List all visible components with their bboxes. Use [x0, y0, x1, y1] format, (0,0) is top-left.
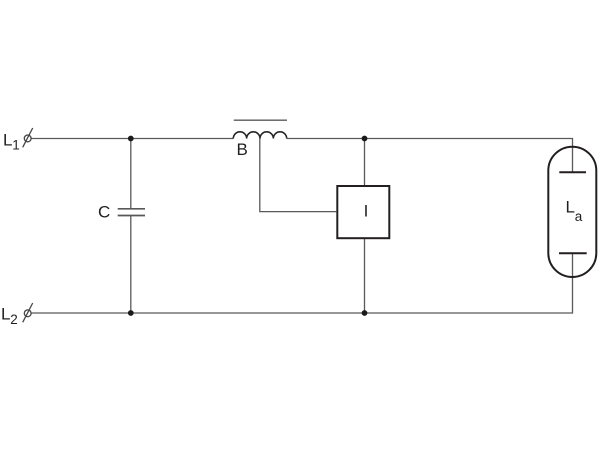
svg-text:2: 2 [10, 312, 18, 327]
svg-text:L: L [566, 198, 575, 217]
svg-text:L: L [3, 131, 12, 150]
svg-text:L: L [1, 304, 10, 323]
svg-text:1: 1 [12, 138, 20, 153]
svg-text:a: a [575, 209, 583, 224]
svg-text:B: B [237, 140, 248, 159]
svg-text:I: I [364, 202, 369, 221]
svg-text:C: C [98, 203, 110, 222]
